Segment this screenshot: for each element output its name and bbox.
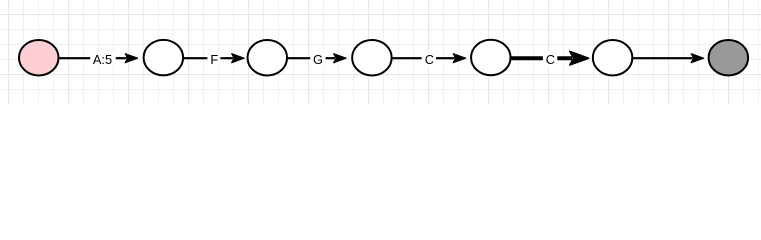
label F bbox=[207, 52, 220, 67]
svg-text:C: C bbox=[425, 52, 434, 67]
svg-text:F: F bbox=[210, 52, 218, 67]
node q1 bbox=[144, 40, 184, 76]
svg-text:G: G bbox=[313, 52, 323, 67]
svg-text:C: C bbox=[546, 52, 555, 67]
wire edge3 q2->q3 bbox=[288, 54, 347, 63]
wire edge6 q5->q6 bbox=[633, 54, 704, 63]
wire edge1 q0->q1 bbox=[59, 54, 138, 63]
node q4 bbox=[471, 40, 511, 76]
label C bbox=[422, 52, 436, 67]
label G bbox=[310, 52, 325, 67]
node q0 start (pink) bbox=[19, 40, 59, 75]
wire edge4 q3->q4 bbox=[393, 54, 466, 63]
canvas background bbox=[0, 0, 761, 104]
node q6 end (gray) bbox=[709, 40, 749, 75]
wire edge2 q1->q2 bbox=[184, 54, 244, 63]
node q2 bbox=[248, 40, 288, 75]
label C2 bbox=[543, 52, 557, 67]
label A:5 bbox=[90, 52, 116, 67]
svg-text:A:5: A:5 bbox=[93, 52, 112, 67]
node q5 bbox=[593, 40, 633, 75]
node q3 bbox=[352, 40, 392, 75]
wire edge5 q4->q5 bold bbox=[511, 51, 589, 65]
